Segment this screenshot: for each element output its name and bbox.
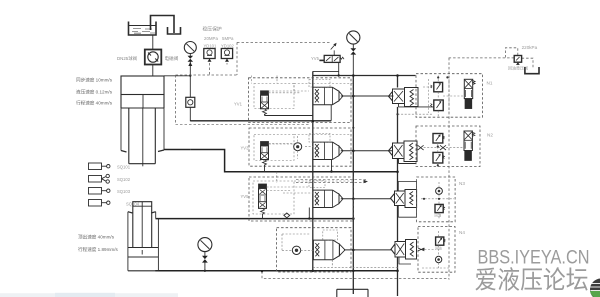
svg-text:回油: 回油 <box>435 213 442 218</box>
wire: heavy A-line (cyl1 cap side) <box>190 120 331 122</box>
svg-text:电磁阀: 电磁阀 <box>165 55 179 62</box>
svg-text:20MPa: 20MPa <box>204 36 218 41</box>
svg-text:YV5: YV5 <box>241 194 250 199</box>
svg-text:YV3: YV3 <box>241 146 250 151</box>
block3 dashed enclosure <box>249 177 353 221</box>
wire: return bus vertical right <box>397 76 399 297</box>
svg-text:行程速度 1.89mm/s: 行程速度 1.89mm/s <box>78 246 119 253</box>
svg-text:5MPa: 5MPa <box>222 36 234 41</box>
wire: bottom return bus <box>155 270 397 272</box>
tank T1 (reservoir) <box>129 22 157 36</box>
pressure switch PS2 <box>221 49 232 62</box>
bottom-left faint band <box>0 293 178 297</box>
wire: dashed pilot connects <box>269 83 310 91</box>
check valve CN4 <box>435 256 441 262</box>
wire: tank overflow pipe <box>151 16 175 34</box>
pilot valve YV3 <box>261 142 295 166</box>
block1 inner dashed enclosure <box>254 84 294 109</box>
limit switch SQ101 <box>89 163 111 170</box>
relief valve RB2 <box>433 152 445 163</box>
cartridge valve CV3 <box>313 190 343 207</box>
wire: CV1 output to the right <box>341 95 394 97</box>
svg-text:BBS.IYEYA.CN: BBS.IYEYA.CN <box>478 248 590 269</box>
wire: P bus horizontal <box>313 75 416 77</box>
svg-text:SQ101: SQ101 <box>117 165 131 170</box>
junction dots on buses <box>204 74 399 272</box>
iyeya globe logo <box>590 279 600 297</box>
relief valve RC4 <box>436 237 446 245</box>
block2 inner dashed enclosure <box>254 135 294 161</box>
cartridge valve CV4 <box>313 240 345 260</box>
wire: dashed stubs from bus into block1 <box>251 76 277 84</box>
wire: tank T1 to ball valve <box>152 35 154 49</box>
wire: cylinder1 rod-side port <box>164 149 190 151</box>
wire: P bus vertical center <box>352 76 354 295</box>
tank T4 (main return tank) <box>337 289 368 297</box>
cartridge R4 <box>391 240 417 265</box>
wire: pilot3 drain <box>262 214 264 219</box>
ball valve V1 (manual valve square with circle) <box>145 50 162 65</box>
svg-text:YV5: YV5 <box>311 56 320 61</box>
svg-text:YV1: YV1 <box>234 102 243 107</box>
cartridge pilot dashed box <box>309 80 330 88</box>
wire: CV3 bottom to cyl2 line <box>308 208 310 219</box>
orifice damper C1 <box>186 97 195 107</box>
block1 dashed enclosure <box>249 78 352 123</box>
tank T2 (drain cup) <box>168 27 181 34</box>
tank T3 (right drain) <box>525 67 539 74</box>
N4 dashed wiring <box>422 231 449 268</box>
svg-text:YD102: YD102 <box>221 44 234 49</box>
spool valve SV1 <box>464 79 475 108</box>
limit switch SQ104 <box>89 200 111 207</box>
cartridge pilot dashed box <box>309 181 325 188</box>
wire: pilot2 drain <box>264 165 266 172</box>
limit switch SQ102 <box>89 174 110 183</box>
wire: damper down to A-line <box>189 107 191 121</box>
wire with arrow up <box>189 62 191 98</box>
pressure gauge G2 <box>347 31 360 44</box>
svg-text:N2: N2 <box>487 133 493 138</box>
N3 dashed enclosure <box>417 177 456 222</box>
check valve CK2 <box>294 136 302 159</box>
svg-text:220kPa: 220kPa <box>522 45 538 50</box>
check diamond on cyl2 line <box>284 213 290 218</box>
svg-text:爱液压论坛: 爱液压论坛 <box>475 267 589 295</box>
N4 dashed enclosure <box>418 227 455 273</box>
relief valve RB1 <box>433 134 445 144</box>
wire: CV4 output <box>344 249 392 251</box>
wire: valve to cylinder 1 <box>152 65 154 77</box>
wire: CV3 output <box>341 198 392 200</box>
pressure gauge G1 <box>184 42 196 54</box>
cartridge valve CV1 <box>313 87 343 104</box>
N2 dashed wiring <box>424 143 463 167</box>
wire: sub bus to reducing valve drain <box>313 70 339 72</box>
wire: backpressure dashed riser <box>448 58 450 280</box>
spool valve SV2 <box>464 131 475 161</box>
pilot valve YV5 (3-pos) <box>259 184 292 214</box>
N1 dashed enclosure <box>416 74 483 118</box>
svg-text:稳压保护: 稳压保护 <box>203 26 222 33</box>
N2 dashed enclosure <box>416 126 480 167</box>
cartridge R1 <box>389 88 434 116</box>
N1 inner dashed <box>428 79 449 113</box>
svg-text:N1: N1 <box>487 81 493 86</box>
orifice pair <box>418 145 446 150</box>
block2 dashed enclosure <box>249 128 351 166</box>
svg-text:液压速度 0.12m/s: 液压速度 0.12m/s <box>76 89 113 96</box>
wire: drain dashed bus bottom <box>262 271 449 278</box>
wire: CV1 drain <box>265 105 332 121</box>
svg-text:SQ102: SQ102 <box>117 177 131 182</box>
svg-text:行程速度 40mm/s: 行程速度 40mm/s <box>76 100 113 107</box>
cartridge pilot dashed box <box>323 230 338 240</box>
wire: pilot dashed along A-line <box>176 123 311 125</box>
gauge shutoff valve <box>188 56 194 62</box>
wire: block3 pilot dashes <box>267 187 314 193</box>
N3 dashed wiring <box>421 182 454 219</box>
wire: dashed pilot enclosure <box>176 42 331 123</box>
check valve CN3 <box>436 188 443 195</box>
cartridge R3 <box>391 181 417 217</box>
svg-text:N4: N4 <box>459 230 465 235</box>
N1 dashed wiring <box>423 76 463 117</box>
wire: T bus vertical left <box>312 71 314 271</box>
wire: reducing valve drain <box>338 62 340 75</box>
svg-text:DN25球阀: DN25球阀 <box>117 55 137 62</box>
block4 dashed enclosure <box>277 228 351 272</box>
wire: CV2 output <box>341 150 392 152</box>
cartridge pilot dashed box <box>309 134 330 143</box>
svg-text:同步速度 10mm/s: 同步速度 10mm/s <box>76 77 113 84</box>
wire: block2 dashed drains <box>269 144 313 147</box>
wire: cyl1 rod-side Z line <box>190 150 397 172</box>
gauge shutoff valve <box>350 48 356 54</box>
cartridge valve CV2 <box>313 142 343 159</box>
check valve CK4 <box>292 246 300 254</box>
wire: CV4 drain + dashes <box>313 260 398 268</box>
wire: cylinder2 top port line <box>156 218 354 220</box>
svg-text:YD101: YD101 <box>204 44 217 49</box>
block3 inner dashed enclosure <box>253 181 294 214</box>
wire: CV2 drain <box>331 160 333 171</box>
relief valve RC3 <box>435 204 445 212</box>
orifice at N4 inlet <box>418 248 424 251</box>
svg-text:N3: N3 <box>459 181 465 186</box>
reducing valve RV1 <box>319 55 344 62</box>
cartridge R2 <box>389 141 418 164</box>
relief valve RA1 <box>431 82 443 91</box>
pilot valve YV1 <box>261 91 300 115</box>
backpressure valve BP1 <box>514 56 521 65</box>
wire: cylinder1 top port to gauge column <box>164 75 190 77</box>
relief valve RA2 <box>431 100 444 111</box>
limit switch SQ103 <box>89 188 111 195</box>
dashed pilot loop <box>449 48 533 67</box>
pilot arrow above reducing valve <box>331 44 336 56</box>
svg-text:顶出速度 40mm/s: 顶出速度 40mm/s <box>78 234 115 241</box>
pressure switch PS1 <box>204 49 215 62</box>
svg-text:SQ103: SQ103 <box>117 189 131 194</box>
